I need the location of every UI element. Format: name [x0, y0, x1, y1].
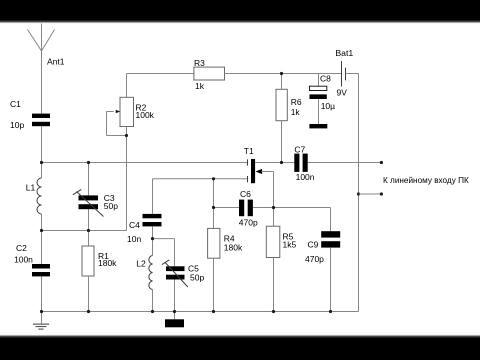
svg-text:C6: C6 — [240, 189, 251, 199]
svg-text:C4: C4 — [129, 220, 140, 230]
svg-text:9V: 9V — [337, 87, 348, 97]
svg-text:100k: 100k — [136, 110, 155, 120]
svg-text:50p: 50p — [104, 201, 118, 211]
svg-text:К линейному входу ПК: К линейному входу ПК — [383, 176, 469, 185]
svg-text:Bat1: Bat1 — [335, 48, 353, 58]
svg-text:1k5: 1k5 — [283, 239, 297, 249]
svg-text:470p: 470p — [305, 254, 324, 264]
svg-text:L2: L2 — [136, 259, 146, 269]
svg-text:R6: R6 — [291, 97, 302, 107]
svg-text:T1: T1 — [244, 146, 254, 156]
svg-text:100n: 100n — [14, 254, 33, 264]
svg-text:R3: R3 — [194, 58, 205, 68]
svg-text:1k: 1k — [195, 81, 205, 91]
svg-text:1k: 1k — [291, 107, 301, 117]
svg-text:C1: C1 — [10, 99, 21, 109]
svg-text:10n: 10n — [127, 234, 141, 244]
svg-text:180k: 180k — [98, 258, 117, 268]
svg-text:C8: C8 — [320, 74, 331, 84]
svg-text:50p: 50p — [190, 272, 204, 282]
svg-text:C2: C2 — [16, 243, 27, 253]
svg-text:10p: 10p — [10, 120, 24, 130]
svg-text:L1: L1 — [26, 182, 36, 192]
svg-text:100n: 100n — [296, 172, 315, 182]
svg-text:C7: C7 — [294, 144, 305, 154]
svg-text:470p: 470p — [239, 217, 258, 227]
svg-text:C9: C9 — [308, 240, 319, 250]
svg-text:10µ: 10µ — [321, 101, 335, 111]
svg-text:Ant1: Ant1 — [47, 56, 65, 66]
svg-text:180k: 180k — [224, 242, 243, 252]
